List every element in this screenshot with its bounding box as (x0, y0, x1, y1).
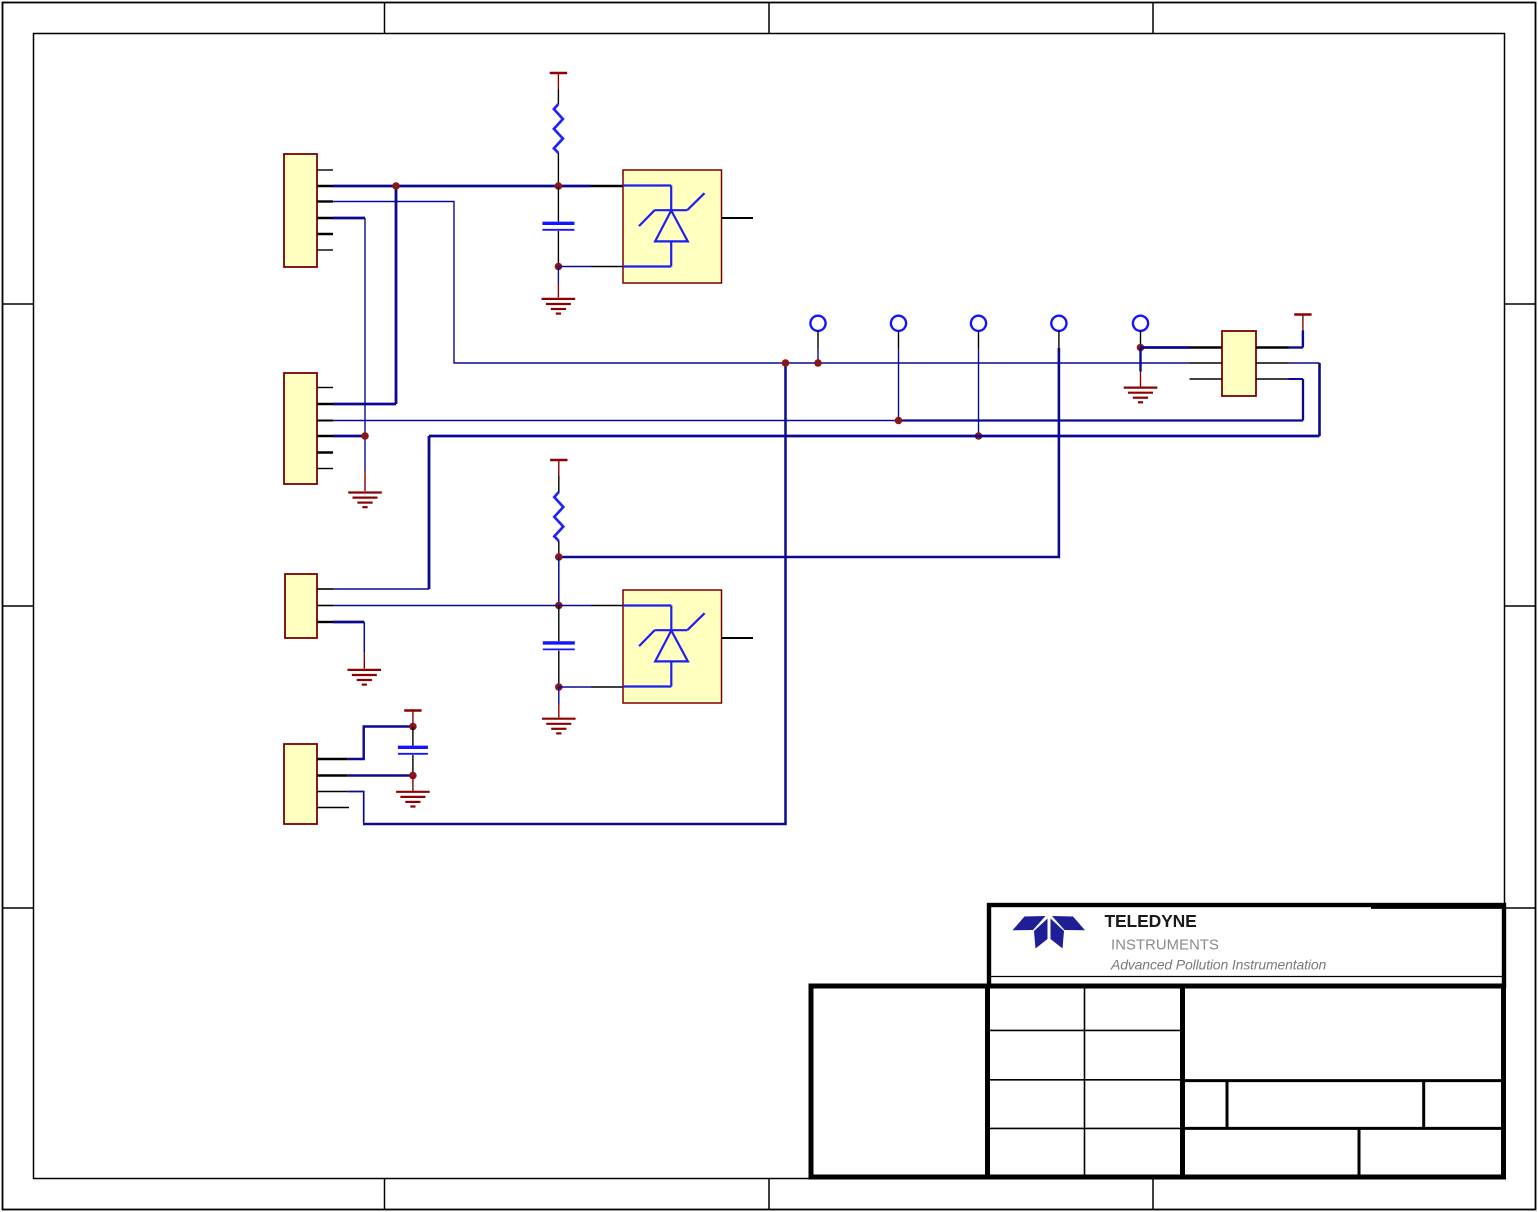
power rail P1 (550, 73, 567, 90)
junction (555, 602, 563, 610)
connector J3 (285, 574, 333, 638)
wire J1 pin2 to U1 node (333, 185, 623, 188)
test point TP4 (1051, 316, 1066, 348)
Teledyne logo (1013, 916, 1086, 949)
title block (811, 905, 1504, 1177)
connector J5 (1190, 331, 1289, 396)
ground (542, 267, 576, 314)
junction (782, 359, 790, 367)
junction (409, 772, 417, 780)
svg-text:INSTRUMENTS: INSTRUMENTS (1111, 938, 1219, 954)
junction (814, 359, 822, 367)
ground at TP5 (1124, 348, 1158, 403)
wire J5 pin3 stub (1289, 378, 1304, 380)
junction (895, 417, 903, 425)
wire J4 pin3 loop to net A (347, 363, 785, 824)
title text (1105, 911, 1327, 973)
connector J4 (284, 744, 349, 824)
capacitor C3 (398, 727, 428, 776)
wire J2 pin4 to ground (333, 436, 365, 491)
wire J4 pin1 to P3 node (347, 727, 413, 760)
test point TP3 (971, 316, 986, 436)
junction (555, 683, 563, 691)
wire U2 upper pin (559, 605, 623, 607)
resistor R1 (554, 90, 563, 185)
connector J1 (284, 154, 333, 267)
power rail P4 (1289, 315, 1312, 348)
wire J3 pin3 to ground (333, 622, 381, 685)
wire J1 pin2 to J2 pin2 (333, 186, 396, 404)
junction (975, 432, 983, 440)
TVS suppressor U2 (623, 590, 753, 703)
wire J1 pin4 down (333, 218, 365, 436)
test point TP5 (1133, 316, 1148, 348)
power rail P2 (550, 460, 567, 477)
junction (361, 432, 369, 440)
junction (555, 553, 563, 561)
wire J2 pin3 to J5 pin3 (333, 379, 1303, 421)
wire U2 lower pin (559, 686, 623, 688)
ground (348, 493, 382, 508)
wire J3 pin2 to U2 node (333, 605, 559, 607)
test point TP2 (891, 316, 906, 421)
junction (555, 263, 563, 271)
ground (542, 687, 576, 733)
junction (409, 723, 417, 731)
resistor R2 (554, 476, 563, 556)
capacitor C1 (542, 187, 574, 265)
junction (555, 182, 563, 190)
svg-text:TELEDYNE: TELEDYNE (1105, 911, 1197, 931)
svg-text:Advanced Pollution Instrumenta: Advanced Pollution Instrumentation (1110, 957, 1327, 973)
TVS suppressor U1 (623, 170, 753, 283)
junction (1137, 344, 1145, 352)
wire TP4 to R2 node (559, 348, 1059, 557)
wire J5 pin2 right loop (1289, 363, 1320, 436)
capacitor C2 (543, 606, 575, 686)
power rail P3 (404, 711, 421, 728)
wire J1 pin3 to J5 pin2 (333, 202, 1190, 364)
wire J4 pin2 (347, 774, 413, 776)
wire net B to J3 pin1 (333, 436, 1320, 589)
connector J2 (284, 373, 333, 484)
wire TP5 to J5 pin1 (1141, 346, 1190, 349)
junction (392, 182, 400, 190)
wire U1 lower pin (558, 266, 623, 268)
wire R2 node down (558, 557, 560, 606)
test point TP1 (810, 316, 825, 363)
ground (396, 776, 430, 807)
